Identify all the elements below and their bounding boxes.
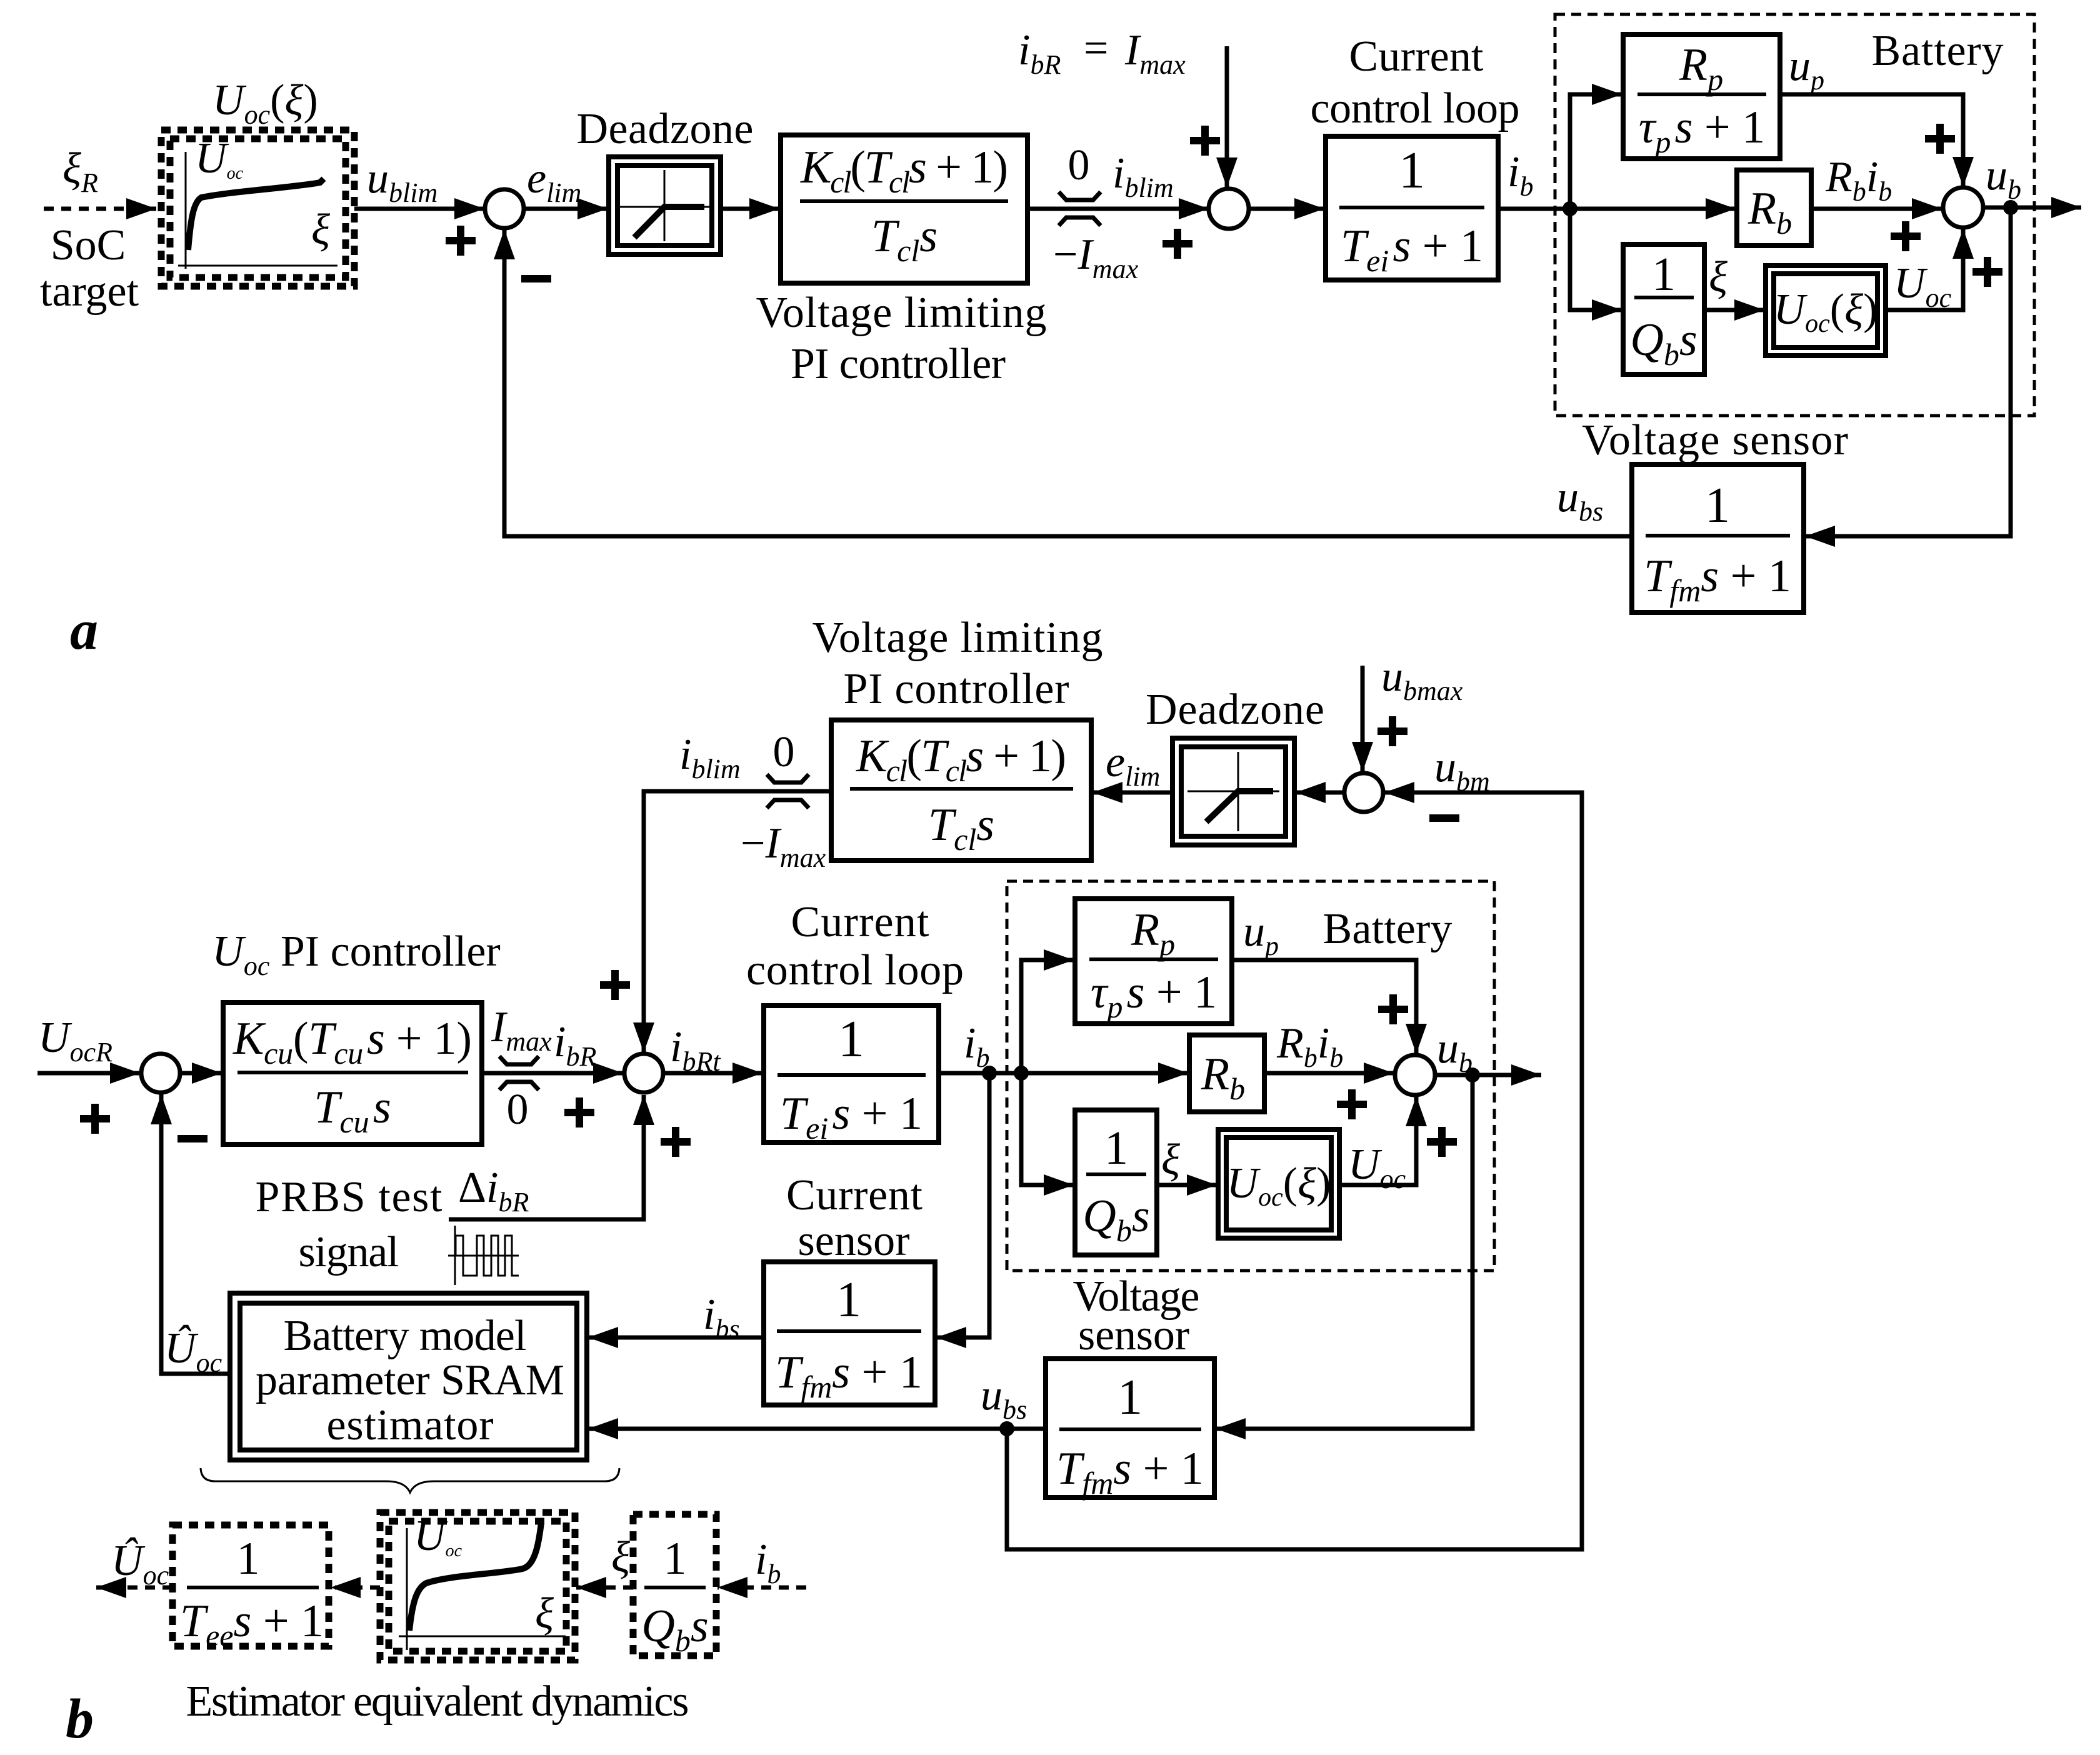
block Uoc(xi) battery B (double box) xyxy=(1218,1129,1339,1238)
svg-text:1: 1 xyxy=(836,1272,861,1327)
svg-text:1: 1 xyxy=(664,1533,687,1584)
svg-text:Voltage sensor: Voltage sensor xyxy=(1582,416,1848,464)
svg-text:Tees + 1: Tees + 1 xyxy=(180,1596,324,1653)
svg-text:Battery: Battery xyxy=(1872,27,2004,75)
svg-text:Estimator equivalent dynamics: Estimator equivalent dynamics xyxy=(186,1677,689,1726)
svg-text:SoC: SoC xyxy=(51,221,126,269)
block current control loop B xyxy=(746,898,964,1146)
svg-text:PRBS test: PRBS test xyxy=(256,1173,443,1221)
svg-text:sensor: sensor xyxy=(1078,1311,1189,1359)
svg-text:1: 1 xyxy=(237,1533,260,1584)
summing junction b3 xyxy=(141,1054,180,1092)
block 1/(Qb s) dashed bottom xyxy=(633,1514,716,1658)
svg-text:Current: Current xyxy=(1349,32,1484,81)
svg-text:Tfms + 1: Tfms + 1 xyxy=(775,1347,922,1404)
block current control loop A xyxy=(1311,32,1520,280)
svg-text:ξ: ξ xyxy=(1709,253,1727,301)
summing junction 1 xyxy=(485,189,524,228)
wire junction b3 to Kcu xyxy=(180,1071,222,1076)
block battery model parameter SRAM estimator (double box) xyxy=(230,1293,587,1460)
wire deadzone to Kcl block xyxy=(721,207,779,211)
svg-text:1: 1 xyxy=(1399,141,1425,199)
block Rp/(tau_p s+1) B xyxy=(1075,899,1232,1024)
svg-text:1: 1 xyxy=(838,1010,864,1068)
block Deadzone A (double box with deadzone curve) xyxy=(577,105,754,254)
long feedback wire u_bm from u_bs node to junction b1 xyxy=(1007,792,1582,1549)
saturation limiter symbol 2 xyxy=(499,1056,539,1090)
node xiR: SoC target dashed input wire xyxy=(44,207,156,211)
svg-text:PI controller: PI controller xyxy=(844,665,1069,713)
svg-text:Battery: Battery xyxy=(1323,905,1452,953)
wire branch to Qb block A xyxy=(1570,209,1622,310)
wire branch to Qb block B xyxy=(1021,1073,1074,1185)
block Uoc(xi) graph (dashed double box) bottom xyxy=(380,1512,575,1660)
svg-text:Battery model: Battery model xyxy=(284,1312,527,1360)
svg-text:Deadzone: Deadzone xyxy=(1146,686,1324,734)
PRBS waveform icon xyxy=(448,1226,519,1285)
svg-text:Tfms + 1: Tfms + 1 xyxy=(1644,551,1791,608)
wire junction b2 to CCL B xyxy=(664,1071,762,1076)
svg-text:Current: Current xyxy=(786,1171,923,1219)
svg-text:ξ: ξ xyxy=(611,1533,630,1581)
svg-text:1: 1 xyxy=(1652,248,1676,301)
block Uoc(xi) SoC-to-voltage map (dashed double box with curve) xyxy=(161,76,354,286)
wire estimator output U_oc_hat to junction b3 xyxy=(161,1094,230,1374)
dashed output arrow U_oc_hat bottom left xyxy=(96,1586,172,1590)
summing junction b1 xyxy=(1344,773,1383,812)
svg-text:=: = xyxy=(1084,24,1108,72)
block Kcl voltage limiting PI controller B xyxy=(812,614,1103,861)
wire PRBS delta i_bR to junction b2 xyxy=(449,1095,644,1219)
svg-text:control loop: control loop xyxy=(1311,84,1520,132)
block Rb B xyxy=(1189,1035,1264,1112)
dashed wire graph box to Tee box xyxy=(331,1586,380,1590)
svg-text:Current: Current xyxy=(791,898,930,946)
node u_bs xyxy=(999,1421,1014,1436)
wire CCL to battery input node and Rb xyxy=(1498,207,1736,211)
svg-text:Tei s + 1: Tei s + 1 xyxy=(1341,221,1483,278)
svg-text:sensor: sensor xyxy=(798,1217,910,1265)
block Uoc(xi) battery A (double box) xyxy=(1766,266,1886,356)
svg-text:0: 0 xyxy=(507,1086,529,1134)
wire current sensor B to estimator i_bs xyxy=(588,1336,764,1340)
summing junction b2 xyxy=(624,1054,663,1092)
svg-text:estimator: estimator xyxy=(327,1401,494,1449)
block Rp/(tau_p s+1) A xyxy=(1623,34,1780,159)
wire branch to Rp block A xyxy=(1570,94,1622,209)
saturation limiter symbol 1 xyxy=(1059,192,1101,226)
svg-text:signal: signal xyxy=(299,1228,399,1276)
wire voltage sensor B output u_bs to estimator xyxy=(588,1427,1046,1431)
block voltage sensor B xyxy=(1046,1272,1214,1501)
wire i_b node down to current sensor B xyxy=(936,1073,989,1337)
dashed wire Qb2 to graph box, label xi xyxy=(576,1586,633,1590)
wire u_blim xyxy=(354,207,484,211)
wire branch to Rp block B xyxy=(1021,960,1074,1073)
block voltage sensor A xyxy=(1582,416,1848,612)
svg-text:1: 1 xyxy=(1117,1370,1142,1425)
wire Kcu to junction b2 with saturation mark 2 xyxy=(482,1071,623,1076)
dashed input wire i_b bottom xyxy=(717,1586,806,1590)
svg-text:1: 1 xyxy=(1705,478,1730,533)
wire junction b1 to deadzone B xyxy=(1296,791,1344,795)
node U_ocR input wire xyxy=(37,1071,140,1076)
svg-text:a: a xyxy=(70,599,98,661)
svg-text:ξ: ξ xyxy=(311,206,330,254)
summing junction b4 (battery sum B) xyxy=(1395,1055,1435,1095)
PRBS test signal input xyxy=(256,1164,529,1276)
svg-text:parameter SRAM: parameter SRAM xyxy=(256,1356,564,1404)
plus sign junction1 left input xyxy=(446,226,476,256)
underbrace below estimator xyxy=(201,1468,619,1492)
feedback wire A: u_b down to voltage sensor xyxy=(1805,207,2011,536)
block 1/(Qb s) A xyxy=(1623,244,1704,374)
output wire and node u_b B xyxy=(1435,1073,1541,1077)
summing junction 3 (battery sum) xyxy=(1943,187,1983,227)
svg-text:ξ: ξ xyxy=(1161,1136,1180,1184)
battery input node dot xyxy=(1562,201,1577,216)
block Kcu Uoc PI controller xyxy=(212,927,500,1144)
battery dashed box B xyxy=(1007,881,1494,1271)
svg-text:Voltage limiting: Voltage limiting xyxy=(812,614,1103,662)
block 1/(Qb s) B xyxy=(1075,1110,1157,1255)
block current sensor B xyxy=(764,1171,935,1405)
svg-text:Tei s + 1: Tei s + 1 xyxy=(780,1088,922,1146)
block Deadzone B (double box) xyxy=(1146,686,1324,845)
svg-text:0: 0 xyxy=(1068,141,1090,189)
svg-text:control loop: control loop xyxy=(746,946,964,994)
svg-text:b: b xyxy=(66,1688,94,1750)
wire Kcl to junction2 with saturation mark xyxy=(1027,207,1209,211)
block Kcl voltage limiting PI controller A xyxy=(756,135,1047,388)
feedback wire B: u_b down to voltage sensor B xyxy=(1216,1075,1472,1429)
node u_bmax constant input xyxy=(1361,666,1365,772)
battery dashed box A xyxy=(1555,14,2034,416)
svg-text:Voltage limiting: Voltage limiting xyxy=(756,289,1047,337)
node ibR = Imax constant input xyxy=(1225,46,1229,187)
wire junction2 to current control loop xyxy=(1249,207,1324,211)
summing junction 2 xyxy=(1209,189,1249,229)
svg-text:target: target xyxy=(40,267,139,316)
wire deadzone B to Kcl B xyxy=(1092,791,1172,795)
block 1/(T_ee s+1) dashed xyxy=(172,1525,329,1653)
saturation limiter symbol b1 xyxy=(767,774,809,808)
svg-text:Tfms + 1: Tfms + 1 xyxy=(1056,1443,1204,1501)
block Rb A xyxy=(1737,170,1811,246)
svg-text:PI controller: PI controller xyxy=(791,340,1006,388)
wire i_blim from Kcl B down to junction b2 with saturation mark xyxy=(644,791,831,1052)
svg-text:0: 0 xyxy=(773,728,795,776)
wire CCL B to battery B with node dots xyxy=(939,1071,1188,1076)
output wire and node u_b A xyxy=(1983,206,2081,210)
svg-text:1: 1 xyxy=(1104,1122,1128,1174)
svg-text:ξ: ξ xyxy=(535,1589,554,1637)
svg-text:Deadzone: Deadzone xyxy=(577,105,754,153)
wire junction1 to deadzone xyxy=(524,207,607,211)
